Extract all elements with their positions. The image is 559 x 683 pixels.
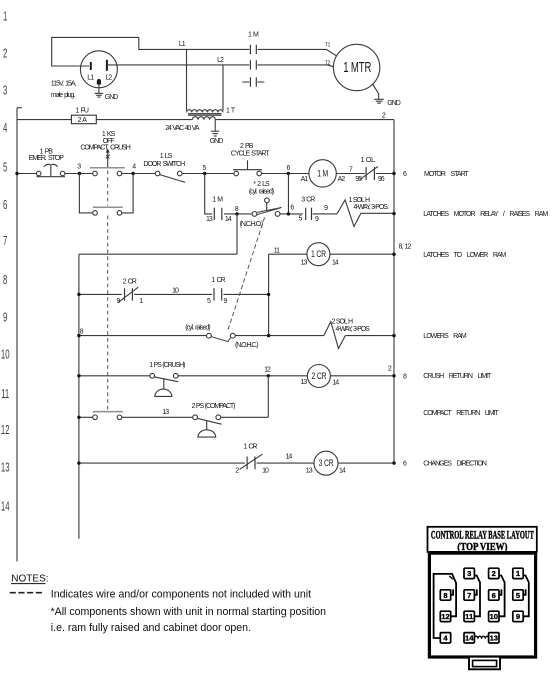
svg-text:12: 12 — [1, 424, 10, 437]
transformer 1T secondary winding — [192, 117, 215, 120]
notes text line 1 — [51, 589, 311, 601]
relay base pin 7 — [464, 590, 474, 600]
relay base pin 10 — [489, 611, 499, 621]
contact 2CR NC 9-1 — [116, 278, 143, 305]
contact 1CR NO 5-9 — [207, 277, 228, 305]
relay base pin 6 hook — [499, 589, 501, 594]
relay base pin 6 — [489, 590, 499, 600]
wire rung 7 right segment net 11 — [269, 253, 394, 255]
relay base pin 9 — [513, 611, 523, 621]
coil 1CR — [301, 243, 339, 267]
transformer 1T core — [188, 114, 222, 116]
wire node 8 down to rung 7 — [236, 214, 238, 254]
wire node6 down to rung6 junction — [287, 174, 289, 214]
selector switch 1KS pointer arrow — [106, 148, 110, 167]
svg-text:(N.O.H.C.): (N.O.H.C.) — [235, 342, 258, 349]
svg-text:COMPACT RETURN LIMIT: COMPACT RETURN LIMIT — [423, 410, 499, 417]
coil 3CR — [306, 451, 346, 475]
overload contact 1OL — [355, 157, 384, 183]
node L1 label — [179, 41, 186, 48]
pressure switch 2PS COMPACT — [192, 403, 235, 437]
line number 8 — [3, 274, 7, 287]
line number 9 — [3, 312, 7, 325]
limit switch 2LS note — [249, 181, 274, 196]
limit switch 2LS NOHC contact — [185, 325, 258, 349]
label MOTOR START — [424, 171, 469, 178]
svg-text:4: 4 — [3, 122, 7, 135]
wire 10 label — [172, 288, 179, 295]
svg-text:COMPACT: COMPACT — [80, 145, 109, 152]
contact 1CR NC 2-10 — [235, 444, 269, 475]
selector switch 1KS mechanical link dashed — [107, 171, 109, 410]
node 2 label top of right rail — [382, 112, 386, 119]
contact 3CR 5-9 — [299, 196, 319, 223]
contact 1M pole 1 — [250, 45, 256, 54]
wire rung 10 — [79, 375, 394, 377]
svg-text:10: 10 — [1, 349, 10, 362]
line number 14 — [1, 501, 10, 514]
svg-text:1 M: 1 M — [212, 197, 223, 204]
svg-text:2 SOL H: 2 SOL H — [332, 318, 353, 325]
node sub rail rung10 — [77, 374, 80, 377]
svg-text:2 PS (COMPACT): 2 PS (COMPACT) — [192, 403, 235, 410]
label LOWERS RAM — [423, 333, 467, 340]
svg-text:115V, 15A,: 115V, 15A, — [51, 81, 77, 88]
wire 2 label rung10 — [388, 366, 392, 373]
node rung13 right rail 6 — [392, 461, 407, 468]
svg-text:1 CR: 1 CR — [243, 444, 257, 451]
selector switch 1KS deck 2 contacts — [93, 207, 123, 215]
svg-text:13: 13 — [490, 634, 498, 643]
svg-text:13: 13 — [1, 462, 10, 475]
svg-text:3: 3 — [467, 569, 471, 578]
svg-text:GND: GND — [105, 94, 119, 101]
svg-text:1 LS: 1 LS — [160, 153, 173, 160]
transformer 1T label — [226, 107, 236, 114]
node 5 — [202, 165, 206, 175]
wire 13 label — [162, 409, 169, 416]
mechanical link dashed 2LS contacts — [228, 217, 265, 330]
svg-text:(cyl. raised): (cyl. raised) — [185, 325, 210, 332]
line number 6 — [3, 199, 7, 212]
wire rung 8 — [79, 293, 269, 295]
svg-text:1 CR: 1 CR — [311, 249, 326, 259]
svg-text:i.e. ram fully raised and cabi: i.e. ram fully raised and cabinet door o… — [51, 622, 251, 634]
relay base bottom tab — [469, 657, 500, 670]
wire 9 label rung6 — [313, 213, 337, 215]
solenoid 2SOLH — [324, 318, 370, 348]
svg-text:DOOR SWITCH: DOOR SWITCH — [143, 161, 185, 168]
wire left rail — [17, 108, 22, 562]
contact 1M pole 3 spare — [242, 77, 264, 86]
wire 7 label — [349, 166, 353, 173]
svg-text:1 KS: 1 KS — [102, 131, 116, 138]
svg-text:CRUSH: CRUSH — [110, 145, 131, 152]
svg-text:1 MTR: 1 MTR — [343, 59, 371, 76]
selector switch 1KS labels — [80, 131, 130, 152]
wire 14 label — [286, 454, 293, 461]
node sub rail rung13 — [77, 461, 80, 464]
wire right rail — [393, 120, 395, 464]
limit switch 1LS DOOR SWITCH — [143, 153, 185, 182]
svg-text:1 FU: 1 FU — [76, 107, 89, 114]
relay base col D connector — [523, 576, 529, 617]
relay base pin 7 hook — [474, 589, 476, 594]
relay base left group connector — [434, 574, 457, 638]
svg-text:CYCLE START: CYCLE START — [231, 150, 271, 157]
label CHANGES DIRECTION — [423, 461, 487, 468]
svg-text:A1: A1 — [301, 176, 309, 183]
svg-text:14: 14 — [465, 634, 474, 643]
node junction 6 rung6 — [287, 204, 295, 215]
svg-text:1 M: 1 M — [317, 168, 328, 178]
svg-text:2 A: 2 A — [78, 117, 88, 124]
ground plug GND — [95, 85, 104, 98]
selector switch 1KS deck 1 contacts — [90, 168, 125, 176]
node rung7 right rail 8 12 — [392, 244, 411, 256]
pushbutton 1PB EMER. STOP — [29, 149, 65, 177]
wire rung 12 — [79, 416, 268, 418]
svg-text:(N.C.H.O.): (N.C.H.O.) — [240, 221, 263, 228]
svg-text:8: 8 — [3, 274, 7, 287]
notes text line 3 — [51, 622, 251, 634]
svg-text:2: 2 — [492, 569, 496, 578]
line number 12 — [1, 424, 10, 437]
wire L1 from plug up and across — [52, 37, 250, 66]
node T2 label — [325, 61, 331, 67]
node rung5 right rail 6 — [392, 171, 407, 178]
svg-text:male plug.: male plug. — [51, 92, 76, 99]
svg-text:4-WAY, 3-POS.: 4-WAY, 3-POS. — [354, 204, 389, 211]
wire 11 label — [274, 247, 280, 254]
line number 11 — [1, 389, 9, 402]
contact 1M pole 2 — [250, 60, 256, 69]
svg-text:CHANGES DIRECTION: CHANGES DIRECTION — [423, 461, 487, 468]
selector switch 1KS deck 2 frame — [79, 174, 133, 213]
contactor 1M label — [248, 31, 259, 38]
relay base pin 8 hook — [451, 589, 453, 594]
line number 3 — [3, 85, 7, 98]
relay base pin 2 — [489, 568, 499, 578]
svg-text:T2: T2 — [325, 61, 331, 67]
svg-text:6: 6 — [492, 591, 496, 600]
relay base pin 5 hook — [523, 589, 525, 594]
label LATCHES TO LOWER RAM — [423, 252, 506, 259]
svg-text:LOWERS RAM: LOWERS RAM — [423, 333, 467, 340]
svg-text:8, 12: 8, 12 — [399, 244, 412, 251]
svg-text:CRUSH RETURN LIMIT: CRUSH RETURN LIMIT — [423, 373, 492, 380]
plug ground pin — [97, 79, 101, 85]
line number 4 — [3, 122, 7, 135]
relay base pin 8 — [440, 590, 450, 600]
svg-text:Indicates wire and/or componen: Indicates wire and/or components not inc… — [51, 589, 311, 601]
selector switch 1KS deck 3 contacts — [93, 412, 123, 420]
line number 7 — [3, 235, 7, 248]
transformer secondary rating label — [165, 125, 200, 132]
notes heading — [11, 574, 49, 585]
svg-text:LATCHES TO LOWER RAM: LATCHES TO LOWER RAM — [423, 252, 506, 259]
coil 1M — [301, 160, 346, 187]
plug label 115V 15A male plug — [51, 81, 77, 99]
node L2 label — [217, 57, 224, 64]
ground motor GND — [373, 85, 384, 104]
relay base pin 14 — [464, 633, 474, 643]
wire 2LS to junction 6 — [280, 213, 303, 215]
svg-text:2 PB: 2 PB — [240, 143, 254, 150]
plug prong L2 — [106, 60, 113, 82]
svg-text:EMER. STOP: EMER. STOP — [29, 155, 65, 162]
node latch junction rung9 — [267, 334, 270, 337]
svg-text:1 PS (CRUSH): 1 PS (CRUSH) — [149, 362, 185, 369]
node sub rail rung12 — [77, 416, 80, 419]
label CRUSH RETURN LIMIT — [423, 373, 492, 380]
relay base coil squiggle 14-13 — [474, 636, 488, 638]
relay base pin 3 — [464, 568, 474, 578]
svg-text:MOTOR START: MOTOR START — [424, 171, 469, 178]
wire contact1 to motor T1 — [257, 49, 337, 56]
svg-text:5: 5 — [3, 162, 7, 175]
svg-text:4-WAY, 3-POS: 4-WAY, 3-POS — [335, 326, 370, 333]
svg-text:1: 1 — [3, 11, 7, 24]
node rail junction rung5 — [15, 172, 18, 175]
wire latch vertical rung7 to rung9 — [268, 254, 270, 335]
svg-text:8: 8 — [443, 591, 447, 600]
wire L2 from plug to contact — [108, 64, 249, 66]
pushbutton 2PB CYCLE START — [231, 143, 271, 176]
node sub rail rung8 — [77, 293, 80, 296]
contact 1M aux 13-14 — [206, 197, 232, 224]
relay base col C connector — [499, 576, 505, 617]
wire rung 7 left segment net 8 — [79, 253, 237, 255]
relay base pin 12 — [440, 611, 450, 621]
svg-text:2: 2 — [3, 48, 7, 61]
svg-text:(cyl. raised): (cyl. raised) — [249, 189, 274, 196]
label COMPACT RETURN LIMIT — [423, 410, 499, 417]
svg-text:1 CR: 1 CR — [211, 277, 225, 284]
svg-text:9: 9 — [3, 312, 7, 325]
node rung9 right rail — [392, 334, 395, 337]
label LATCHES MOTOR RELAY / RAISES RAM — [423, 211, 548, 218]
wire rung10 down to rung12 — [267, 376, 269, 418]
relay base main box — [429, 553, 535, 657]
svg-text:9: 9 — [516, 612, 520, 621]
notes dashed sample — [10, 592, 43, 594]
svg-text:24 VAC 40 VA: 24 VAC 40 VA — [165, 125, 200, 132]
svg-text:3 CR: 3 CR — [319, 458, 334, 468]
plug 115V 15A male plug body — [80, 51, 117, 88]
wire rung 13 — [79, 462, 394, 464]
wire rung 9 — [79, 335, 394, 337]
svg-text:1 O.L.: 1 O.L. — [361, 157, 376, 164]
node sub rail rung9 — [77, 328, 84, 337]
transformer 1T primary right lead — [222, 65, 224, 111]
fuse 1FU 2A — [71, 107, 96, 124]
line number 5 — [3, 162, 7, 175]
svg-text:7: 7 — [467, 591, 471, 600]
node rung10 right rail 8 — [392, 374, 407, 381]
node T1 label — [325, 43, 331, 49]
svg-text:1 SOL H: 1 SOL H — [349, 197, 370, 204]
node 3 — [77, 164, 81, 176]
svg-text:11: 11 — [465, 612, 474, 621]
svg-text:LATCHES MOTOR RELAY / RAISES R: LATCHES MOTOR RELAY / RAISES RAM — [423, 211, 548, 218]
svg-text:(TOP VIEW): (TOP VIEW) — [457, 541, 507, 553]
node 4 — [131, 164, 136, 176]
svg-text:* 2 LS: * 2 LS — [253, 181, 270, 188]
relay base pin 4 — [440, 633, 450, 643]
wire contact2 to motor T2 — [257, 65, 333, 67]
svg-text:A2: A2 — [338, 176, 346, 183]
transformer 1T primary winding — [187, 110, 224, 113]
svg-text:2 CR: 2 CR — [312, 371, 327, 381]
line number 13 — [1, 462, 10, 475]
relay base pin 13 — [489, 633, 499, 643]
relay base title box — [428, 527, 537, 553]
notes text line 2 — [51, 606, 327, 618]
svg-text:T1: T1 — [325, 43, 331, 49]
node latch junction rung8 — [267, 293, 270, 296]
relay base pin 5 — [513, 590, 523, 600]
node 6 — [287, 165, 291, 175]
wire 12 label junction — [264, 367, 271, 378]
wire node5 down to rung6 — [205, 174, 213, 214]
node 8 — [235, 206, 239, 215]
line number 10 — [1, 349, 10, 362]
svg-text:6: 6 — [3, 199, 7, 212]
svg-text:11: 11 — [1, 389, 9, 402]
transformer 1T primary left lead — [186, 49, 188, 110]
relay base pin 11 — [464, 611, 474, 621]
svg-text:GND: GND — [387, 100, 401, 107]
relay base pin 1 — [513, 568, 523, 578]
line number 1 — [3, 11, 7, 24]
svg-text:3 CR: 3 CR — [301, 196, 315, 203]
wire rung 5 segments — [17, 173, 394, 175]
wire sub rail net 8 — [78, 254, 80, 539]
ground transformer GND — [211, 120, 219, 136]
svg-text:7: 7 — [3, 235, 7, 248]
coil 2CR — [300, 365, 339, 388]
wire 1M to node 8 — [224, 213, 252, 215]
svg-text:3: 3 — [3, 85, 7, 98]
svg-text:*All components shown with uni: *All components shown with unit in norma… — [51, 606, 327, 618]
svg-text:1 M: 1 M — [248, 31, 259, 38]
svg-text:10: 10 — [490, 612, 498, 621]
svg-text:14: 14 — [1, 501, 10, 514]
pressure switch 1PS CRUSH — [149, 362, 185, 397]
plug prong L1 — [87, 62, 94, 82]
limit switch 2LS NCHO contact — [240, 198, 282, 228]
node rung6 right rail — [392, 212, 395, 215]
svg-text:NOTES:: NOTES: — [11, 574, 48, 585]
solenoid 1SOLH — [337, 197, 394, 227]
svg-text:12: 12 — [441, 612, 449, 621]
relay base col B connector — [474, 576, 480, 617]
svg-text:2 CR: 2 CR — [123, 278, 137, 285]
line number 2 — [3, 48, 7, 61]
motor 1 MTR — [333, 44, 379, 90]
wire 24VAC secondary line rung 4 — [17, 119, 394, 121]
svg-text:GND: GND — [210, 138, 224, 145]
